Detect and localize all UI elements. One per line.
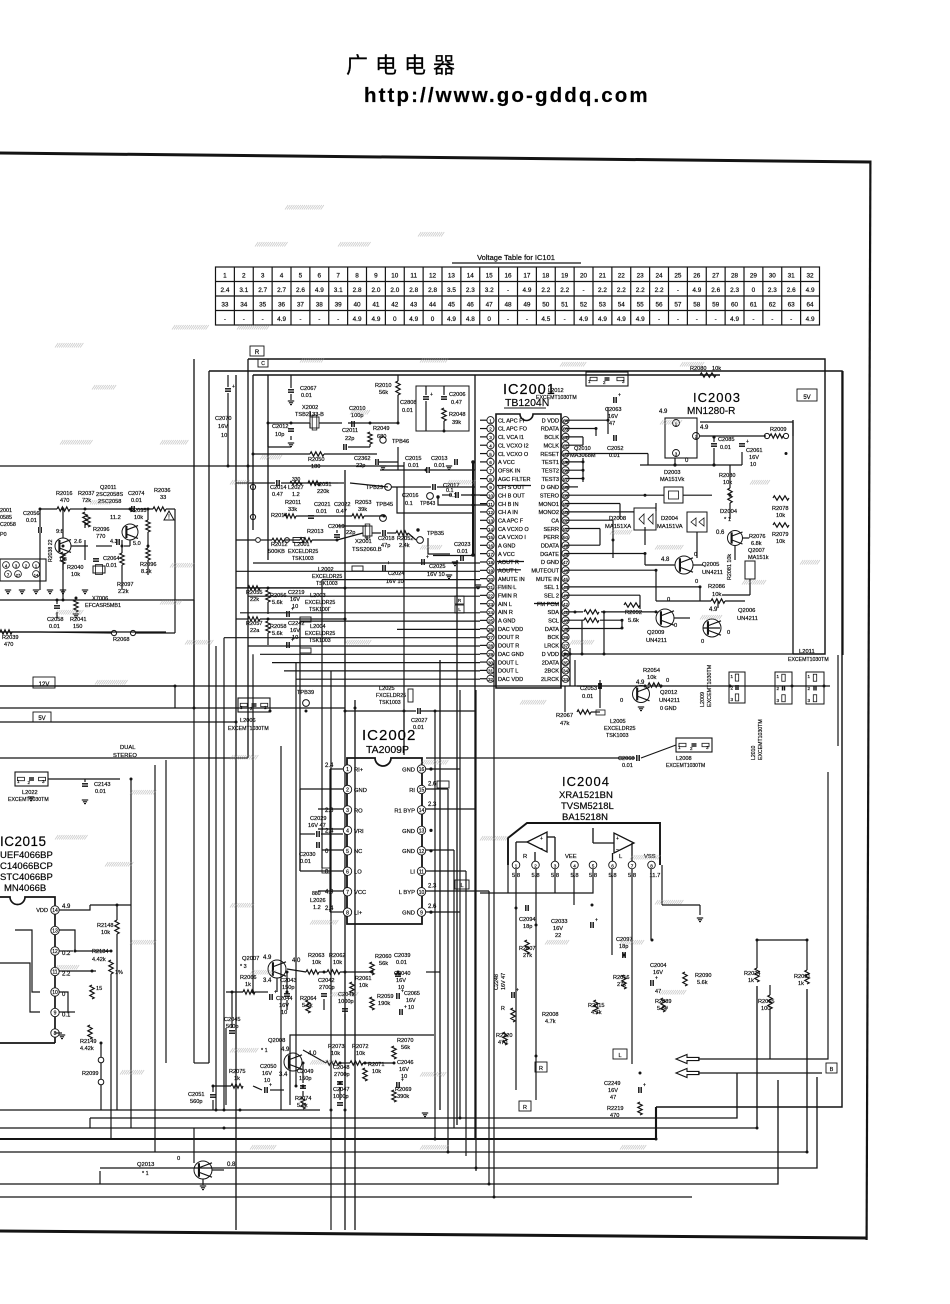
svg-text:180: 180 (311, 464, 320, 470)
svg-text:L2004: L2004 (310, 624, 326, 630)
svg-text:10k: 10k (331, 1051, 340, 1057)
IC2001 pin 31 DOUT L (487, 667, 494, 674)
svg-text:L: L (460, 883, 463, 889)
svg-text:37: 37 (563, 644, 569, 649)
svg-text:2.6: 2.6 (428, 904, 437, 910)
svg-text:R2007: R2007 (519, 946, 535, 952)
svg-text:10k: 10k (776, 539, 785, 545)
svg-text:C2058: C2058 (47, 617, 63, 623)
svg-text:C2094: C2094 (519, 917, 535, 923)
connector box 1 (729, 672, 745, 703)
op-amp A (R) (527, 832, 547, 852)
svg-text:TSK1003: TSK1003 (316, 581, 338, 587)
svg-text:X2001: X2001 (355, 539, 372, 545)
IC2015 pin 13 (51, 926, 59, 934)
svg-text:0.1: 0.1 (405, 501, 413, 507)
svg-text:-: - (677, 316, 679, 323)
svg-text:4.9: 4.9 (636, 316, 645, 323)
svg-text:53: 53 (563, 510, 569, 515)
IC2001 pin 21 FMIN L (487, 583, 494, 590)
sheet bottom border (0, 1230, 866, 1240)
IC2001 pin 37 LRCK (562, 642, 569, 649)
svg-text:5: 5 (346, 849, 349, 855)
svg-text:14: 14 (467, 273, 475, 280)
svg-text:10k: 10k (712, 592, 721, 598)
svg-text:R2010: R2010 (375, 383, 391, 389)
IC2002 pin 4 VRI (343, 826, 351, 834)
svg-text:2.8: 2.8 (353, 287, 362, 294)
svg-text:47: 47 (609, 421, 615, 427)
svg-text:39: 39 (335, 302, 343, 309)
wire left verticals (193, 359, 195, 708)
IC2001 pin 25 A GND (487, 617, 494, 624)
svg-text:14: 14 (52, 908, 58, 914)
svg-text:TEST2: TEST2 (542, 468, 559, 474)
junction dots IC2003 region (582, 460, 585, 463)
svg-text:L BYP: L BYP (399, 890, 415, 896)
IC2002 pin 11 LI (417, 867, 425, 875)
IC2001 pin 54 MONO1 (562, 500, 569, 507)
svg-text:TSK100Γ: TSK100Γ (309, 607, 331, 613)
svg-text:L2010: L2010 (751, 745, 757, 760)
IC2001 pin 18 AOUT R (487, 558, 494, 565)
svg-text:7: 7 (346, 890, 349, 896)
svg-text:23: 23 (488, 602, 494, 607)
svg-text:470: 470 (498, 1040, 507, 1046)
svg-text:P0: P0 (0, 532, 7, 538)
IC2001 pin 62 BCLK (562, 433, 569, 440)
svg-text:33: 33 (221, 302, 229, 309)
svg-text:C2046: C2046 (397, 1060, 413, 1066)
svg-text:A GND: A GND (498, 619, 515, 625)
svg-text:10k: 10k (333, 960, 342, 966)
strikethrough marks on IC2001 labels (497, 485, 531, 487)
svg-text:C2053: C2053 (580, 686, 597, 692)
svg-text:TPB35: TPB35 (427, 531, 444, 537)
resistor internal 15 (90, 985, 94, 999)
svg-text:EXCEMT1030TM: EXCEMT1030TM (536, 395, 577, 401)
IC2002 body (347, 758, 422, 924)
svg-text:MUTEOUT: MUTEOUT (531, 569, 559, 575)
svg-text:R2012: R2012 (271, 542, 287, 548)
svg-text:SERR: SERR (543, 527, 559, 533)
svg-text:-: - (507, 316, 509, 323)
resistor R2007 (525, 940, 529, 954)
svg-text:VDD: VDD (36, 908, 48, 914)
svg-text:R2040: R2040 (67, 565, 83, 571)
svg-text:2.6: 2.6 (74, 539, 82, 545)
svg-text:12: 12 (488, 510, 494, 515)
grey connector mark right of pin 15 (437, 781, 449, 788)
tag right (826, 1063, 837, 1073)
svg-text:2.4: 2.4 (220, 287, 229, 294)
svg-text:1: 1 (346, 767, 349, 773)
svg-text:C2064: C2064 (103, 556, 119, 562)
svg-text:IC2003: IC2003 (693, 390, 741, 405)
svg-text:L2005: L2005 (610, 719, 626, 725)
svg-text:22k: 22k (250, 597, 259, 603)
svg-text:5.6k: 5.6k (697, 980, 708, 986)
svg-text:EXCEMT1030TM: EXCEMT1030TM (758, 719, 764, 760)
svg-text:UN4211: UN4211 (737, 616, 758, 622)
svg-text:2: 2 (242, 273, 246, 280)
svg-text:40: 40 (563, 619, 569, 624)
svg-text:0: 0 (752, 287, 756, 294)
svg-text:C2047: C2047 (333, 1087, 349, 1093)
svg-text:3.4: 3.4 (263, 978, 272, 984)
svg-text:D2003: D2003 (664, 470, 680, 476)
ground row (5, 589, 11, 591)
svg-text:2.3: 2.3 (466, 287, 475, 294)
svg-text:60: 60 (731, 302, 739, 309)
capacitor C2094 (525, 905, 527, 911)
svg-text:R2037: R2037 (78, 491, 94, 497)
svg-text:4.9: 4.9 (62, 904, 71, 910)
svg-text:2.2k: 2.2k (118, 589, 129, 595)
svg-text:2: 2 (489, 427, 492, 432)
svg-text:IC2002: IC2002 (362, 727, 416, 744)
svg-text:22: 22 (618, 273, 626, 280)
svg-text:EXCEMT1030TM: EXCEMT1030TM (666, 763, 705, 769)
svg-text:C2023: C2023 (454, 542, 470, 548)
svg-text:R2091: R2091 (794, 974, 810, 980)
svg-text:DGATE: DGATE (540, 552, 559, 558)
svg-text:UN4211: UN4211 (702, 570, 723, 576)
tag C inner (258, 359, 268, 367)
svg-text:12: 12 (52, 949, 58, 955)
capacitor C2063 (613, 397, 615, 403)
svg-text:770: 770 (96, 534, 105, 540)
IC2001 pin 48 DGATE (562, 550, 569, 557)
svg-text:4.9: 4.9 (806, 316, 815, 323)
wires IC2015 pins (59, 905, 90, 910)
IC2001 pin 56 D GND (562, 483, 569, 490)
svg-text:Q2009: Q2009 (647, 630, 664, 636)
svg-text:+: + (430, 392, 433, 398)
svg-text:L2027: L2027 (288, 485, 304, 491)
svg-text:61: 61 (563, 443, 569, 448)
svg-text:27: 27 (488, 635, 494, 640)
svg-text:R2064: R2064 (300, 996, 316, 1002)
resistor R2024 (755, 968, 759, 982)
svg-text:R2065: R2065 (758, 999, 774, 1005)
svg-text:TEST1: TEST1 (542, 460, 559, 466)
svg-text:16V: 16V (290, 597, 300, 603)
svg-text:48: 48 (563, 552, 569, 557)
svg-text:FMIN R: FMIN R (498, 594, 517, 600)
svg-text:14: 14 (419, 808, 425, 814)
svg-text:32: 32 (488, 677, 494, 682)
svg-text:13: 13 (448, 273, 456, 280)
svg-text:D GND: D GND (541, 560, 559, 566)
svg-text:24: 24 (656, 273, 664, 280)
svg-text:L2009: L2009 (700, 692, 706, 707)
svg-text:STEREO: STEREO (113, 753, 137, 759)
scan smudge artifacts (285, 205, 324, 210)
svg-text:5: 5 (592, 863, 595, 868)
svg-text:DAC GND: DAC GND (498, 652, 524, 658)
svg-text:1: 1 (489, 418, 492, 423)
svg-text:-: - (790, 316, 792, 323)
svg-text:C2021: C2021 (314, 502, 330, 508)
IC2001 pin 30 DOUT L (487, 658, 494, 665)
svg-text:16V: 16V (399, 1067, 409, 1073)
svg-text:4.9: 4.9 (806, 287, 815, 294)
IC2002 pin 5 NC (343, 847, 351, 855)
svg-text:+: + (643, 1083, 646, 1089)
svg-text:4.9: 4.9 (277, 316, 286, 323)
svg-text:Q2013: Q2013 (137, 1162, 154, 1168)
IC2002 pin 1 RI+ (343, 765, 351, 773)
svg-text:CA APC F: CA APC F (498, 518, 524, 524)
svg-text:13: 13 (419, 829, 425, 835)
svg-text:DDATA: DDATA (541, 544, 559, 550)
svg-text:34: 34 (563, 669, 569, 674)
svg-text:33: 33 (160, 495, 166, 501)
svg-text:16V: 16V (608, 414, 618, 420)
svg-text:10k: 10k (356, 1051, 365, 1057)
svg-text:1000p: 1000p (338, 999, 354, 1005)
svg-text:10: 10 (750, 462, 756, 468)
svg-text:CH A IN: CH A IN (498, 510, 518, 516)
svg-text:560p: 560p (190, 1099, 202, 1105)
svg-text:4.9: 4.9 (730, 316, 739, 323)
svg-text:26: 26 (488, 627, 494, 632)
svg-text:190k: 190k (378, 1001, 390, 1007)
svg-text:CA VCXO O: CA VCXO O (498, 527, 529, 533)
svg-text:8: 8 (54, 1031, 57, 1037)
svg-text:14: 14 (34, 572, 39, 577)
IC2002 pin 14 R1 BYP (417, 806, 425, 814)
svg-text:-: - (507, 287, 509, 294)
svg-text:+: + (291, 638, 294, 644)
box C2006 R2048 (416, 386, 469, 431)
svg-text:D2008: D2008 (609, 516, 626, 522)
svg-text:C2027: C2027 (411, 718, 427, 724)
svg-text:C2050: C2050 (260, 1064, 276, 1070)
svg-text:-: - (677, 287, 679, 294)
wires mid rows (236, 482, 275, 484)
svg-text:39k: 39k (452, 420, 461, 426)
svg-text:DOUT L: DOUT L (498, 669, 518, 675)
svg-text:2.2: 2.2 (636, 287, 645, 294)
svg-text:8: 8 (650, 863, 653, 868)
svg-text:-: - (715, 316, 717, 323)
resistor R2078 (773, 496, 789, 500)
svg-text:5.6k: 5.6k (272, 600, 283, 606)
svg-text:0: 0 (701, 639, 704, 645)
svg-text:12: 12 (419, 849, 425, 855)
svg-text:C2018: C2018 (378, 536, 394, 542)
svg-text:TPB46: TPB46 (392, 439, 409, 445)
svg-text:0: 0 (695, 579, 698, 585)
IC2001 pin 33 2LRCK (562, 675, 569, 682)
svg-text:TPB39: TPB39 (297, 690, 314, 696)
svg-text:R2090: R2090 (695, 973, 711, 979)
svg-text:2.2: 2.2 (655, 287, 664, 294)
svg-text:44: 44 (429, 302, 437, 309)
svg-text:10k: 10k (101, 930, 110, 936)
svg-text:VRI: VRI (354, 829, 364, 835)
svg-text:4.9: 4.9 (598, 316, 607, 323)
resistor R2065 (768, 995, 772, 1009)
svg-text:10k: 10k (71, 572, 80, 578)
svg-text:R2009: R2009 (770, 427, 786, 433)
svg-text:AGC FILTER: AGC FILTER (498, 477, 531, 483)
svg-text:-: - (526, 316, 528, 323)
svg-text:0.01: 0.01 (106, 563, 117, 569)
svg-text:CH B OUT: CH B OUT (498, 493, 525, 499)
connector box 2 (775, 672, 792, 704)
svg-text:MA151VA: MA151VA (657, 524, 683, 530)
svg-text:0.01: 0.01 (413, 725, 424, 731)
svg-text:53: 53 (599, 302, 607, 309)
svg-text:39k: 39k (358, 507, 367, 513)
svg-text:VCC: VCC (354, 890, 366, 896)
svg-text:51: 51 (561, 302, 569, 309)
svg-text:DOUT L: DOUT L (498, 660, 518, 666)
svg-text:10: 10 (281, 1010, 287, 1016)
IC2002 pin 13 GND (417, 826, 425, 834)
svg-text:+: + (540, 836, 543, 842)
svg-text:52: 52 (563, 518, 569, 523)
svg-text:39: 39 (563, 627, 569, 632)
IC2002 pin 12 GND (417, 847, 425, 855)
IC2004 pin 1 (512, 861, 520, 869)
svg-text:11: 11 (410, 273, 417, 280)
svg-text:2.2: 2.2 (598, 287, 607, 294)
svg-text:45: 45 (563, 577, 569, 582)
svg-text:15: 15 (488, 535, 494, 540)
svg-text:58: 58 (693, 302, 701, 309)
svg-text:220k: 220k (317, 489, 329, 495)
IC2001 pin 49 DDATA (562, 542, 569, 549)
crystal X2001 (363, 526, 372, 536)
resistor R2084 zigzag (584, 610, 599, 614)
IC2001 pin 58 TEST2 (562, 467, 569, 474)
capacitor C2074 (131, 506, 133, 512)
op-amp B (L) (614, 833, 634, 853)
svg-text:56: 56 (563, 485, 569, 490)
svg-text:STERO: STERO (540, 493, 560, 499)
svg-text:BCLK: BCLK (544, 435, 559, 441)
op-amp U-IC2001 body (496, 414, 561, 688)
svg-text:15: 15 (96, 986, 102, 992)
IC2001 pin 26 DAC VDD (487, 625, 494, 632)
svg-text:C2024: C2024 (388, 571, 404, 577)
svg-text:62: 62 (769, 302, 777, 309)
svg-text:-: - (582, 287, 584, 294)
svg-text:Q2012: Q2012 (660, 690, 677, 696)
svg-text:16: 16 (419, 767, 425, 773)
svg-text:8.2k: 8.2k (141, 569, 152, 575)
svg-text:1k: 1k (798, 981, 804, 987)
svg-text:R2053: R2053 (355, 500, 371, 506)
svg-text:C2058: C2058 (0, 522, 16, 528)
svg-text:SEL 2: SEL 2 (544, 594, 559, 600)
svg-text:11: 11 (419, 869, 424, 875)
transistor Q2009 (656, 609, 674, 627)
svg-text:4.9: 4.9 (447, 316, 456, 323)
svg-text:C2013: C2013 (431, 456, 447, 462)
svg-text:-: - (337, 316, 339, 323)
svg-text:AIN L: AIN L (498, 602, 512, 608)
IC2001 pin 60 RESET (562, 450, 569, 457)
svg-text:STC4066BP: STC4066BP (0, 872, 53, 883)
svg-text:0: 0 (620, 698, 623, 704)
svg-text:+: + (269, 1083, 272, 1089)
svg-text:D VDD: D VDD (542, 652, 559, 658)
svg-text:28: 28 (731, 273, 739, 280)
svg-text:16V: 16V (262, 1071, 272, 1077)
svg-text:9: 9 (374, 273, 378, 280)
svg-text:R2011: R2011 (285, 500, 301, 506)
svg-text:0.01: 0.01 (95, 789, 106, 795)
IC2003 regulator box (665, 418, 697, 458)
svg-text:LRCK: LRCK (544, 644, 559, 650)
IC2001 pin 46 MUTEOUT (562, 567, 569, 574)
svg-text:GND: GND (354, 788, 367, 794)
svg-text:C: C (261, 361, 265, 367)
IC2002 pin 10 L BYP (417, 888, 425, 896)
svg-text:R2024: R2024 (744, 971, 760, 977)
svg-text:56k: 56k (379, 961, 388, 967)
svg-text:C2056: C2056 (23, 511, 39, 517)
svg-text:FM PCM: FM PCM (537, 602, 559, 608)
svg-text:37: 37 (297, 302, 305, 309)
svg-text:A GND: A GND (498, 544, 515, 550)
wire bottom-right sweeps (698, 772, 828, 1059)
svg-text:10k: 10k (312, 960, 321, 966)
svg-text:TA2009P: TA2009P (366, 744, 409, 756)
IC2001 pin 11 CH B IN (487, 500, 494, 507)
capacitor C2027 (417, 708, 419, 714)
svg-text:64: 64 (563, 418, 569, 423)
svg-text:C2068: C2068 (618, 756, 634, 762)
svg-text:R2060: R2060 (375, 954, 391, 960)
svg-text:3.1: 3.1 (334, 287, 343, 294)
IC2001 pin 2 CL APC FO (487, 425, 494, 432)
resistor R2091 (805, 970, 809, 984)
svg-text:EXCELDR25: EXCELDR25 (604, 726, 635, 732)
svg-text:CL VCXO I2: CL VCXO I2 (498, 443, 529, 449)
svg-text:35: 35 (563, 660, 569, 665)
svg-text:CL VCA I1: CL VCA I1 (498, 435, 524, 441)
IC2001 pin 7 OFSK IN (487, 467, 494, 474)
svg-text:EFCASR5MB1: EFCASR5MB1 (85, 603, 121, 609)
svg-text:C2030: C2030 (299, 852, 315, 858)
svg-text:18: 18 (542, 273, 550, 280)
svg-text:-: - (243, 316, 245, 323)
svg-text:5.0: 5.0 (133, 541, 141, 547)
svg-text:11: 11 (52, 970, 57, 976)
svg-text:3.2: 3.2 (485, 287, 494, 294)
tag 12V (33, 677, 55, 688)
svg-text:C2049: C2049 (297, 1069, 313, 1075)
IC2002 pin 6 LO (343, 867, 351, 875)
svg-text:C2242: C2242 (288, 621, 304, 627)
IC2004 pin 8 (648, 861, 656, 869)
svg-text:CL APC FI: CL APC FI (498, 418, 525, 424)
svg-text:C2044: C2044 (276, 996, 292, 1002)
svg-text:5: 5 (299, 273, 303, 280)
svg-text:L2006: L2006 (240, 718, 256, 724)
svg-text:C2039: C2039 (394, 953, 410, 959)
svg-text:16: 16 (505, 273, 513, 280)
svg-text:0.1: 0.1 (449, 493, 457, 499)
svg-text:100: 100 (761, 1006, 770, 1012)
svg-text:16V: 16V (553, 926, 563, 932)
